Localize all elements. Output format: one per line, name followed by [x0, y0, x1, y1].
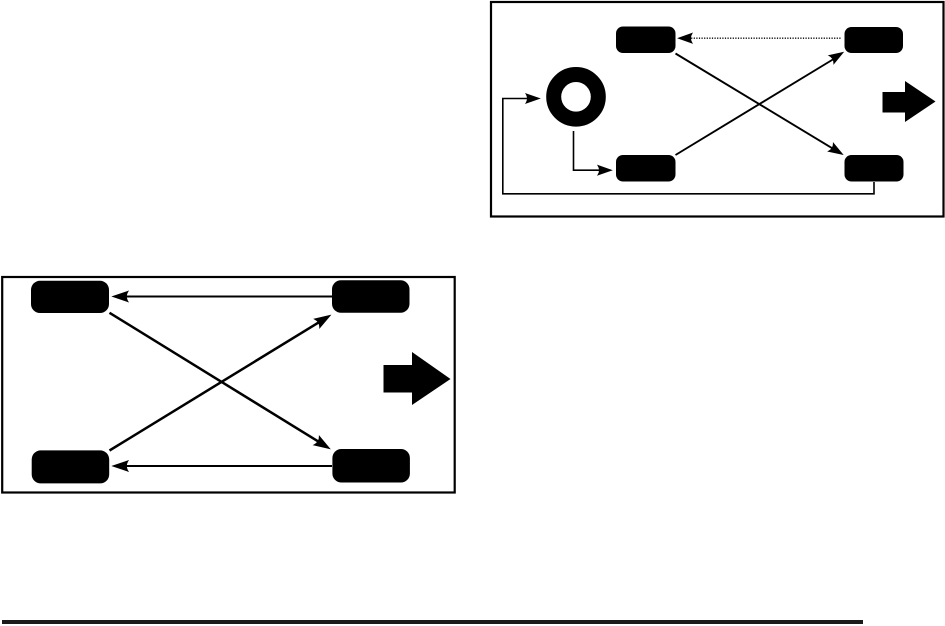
wire: spare return loop (RR bottom, around left, into spare) — [503, 94, 874, 194]
rule: page footer line — [2, 620, 863, 624]
tire RF (top-right, bottom diagram) — [332, 280, 410, 313]
tire LF (top-left, bottom diagram) — [31, 281, 109, 313]
tire LR (bottom-left, top diagram) — [616, 155, 676, 182]
spare tire (donut) — [554, 75, 599, 120]
frame: bottom diagram border box — [2, 277, 455, 493]
tire LF (top-left, top diagram) — [616, 27, 676, 54]
tire LR (bottom-left, bottom diagram) — [32, 450, 110, 483]
frame: top diagram border box — [491, 2, 944, 217]
arrow LR to RF (diagonal, bottom diagram) — [110, 316, 331, 451]
tire RF (top-right, top diagram) — [845, 27, 904, 53]
block arrow: direction of travel (bottom diagram) — [384, 352, 451, 405]
wire: spare to LR arrow — [574, 131, 612, 175]
arrow RF to LF (horizontal, bottom diagram) — [113, 291, 332, 301]
arrow LR to RF (diagonal) — [676, 53, 844, 156]
arrow RF to LF (dotted horizontal) — [679, 33, 842, 43]
arrow LF to RR (diagonal, bottom diagram) — [110, 313, 330, 449]
arrow LF to RR (diagonal) — [676, 54, 843, 155]
arrow RR to LR (horizontal, bottom diagram) — [113, 461, 332, 471]
tire RR (bottom-right, bottom diagram) — [332, 449, 410, 483]
block arrow: direction of travel (top diagram) — [883, 81, 936, 122]
tire RR (bottom-right, top diagram) — [845, 155, 904, 182]
